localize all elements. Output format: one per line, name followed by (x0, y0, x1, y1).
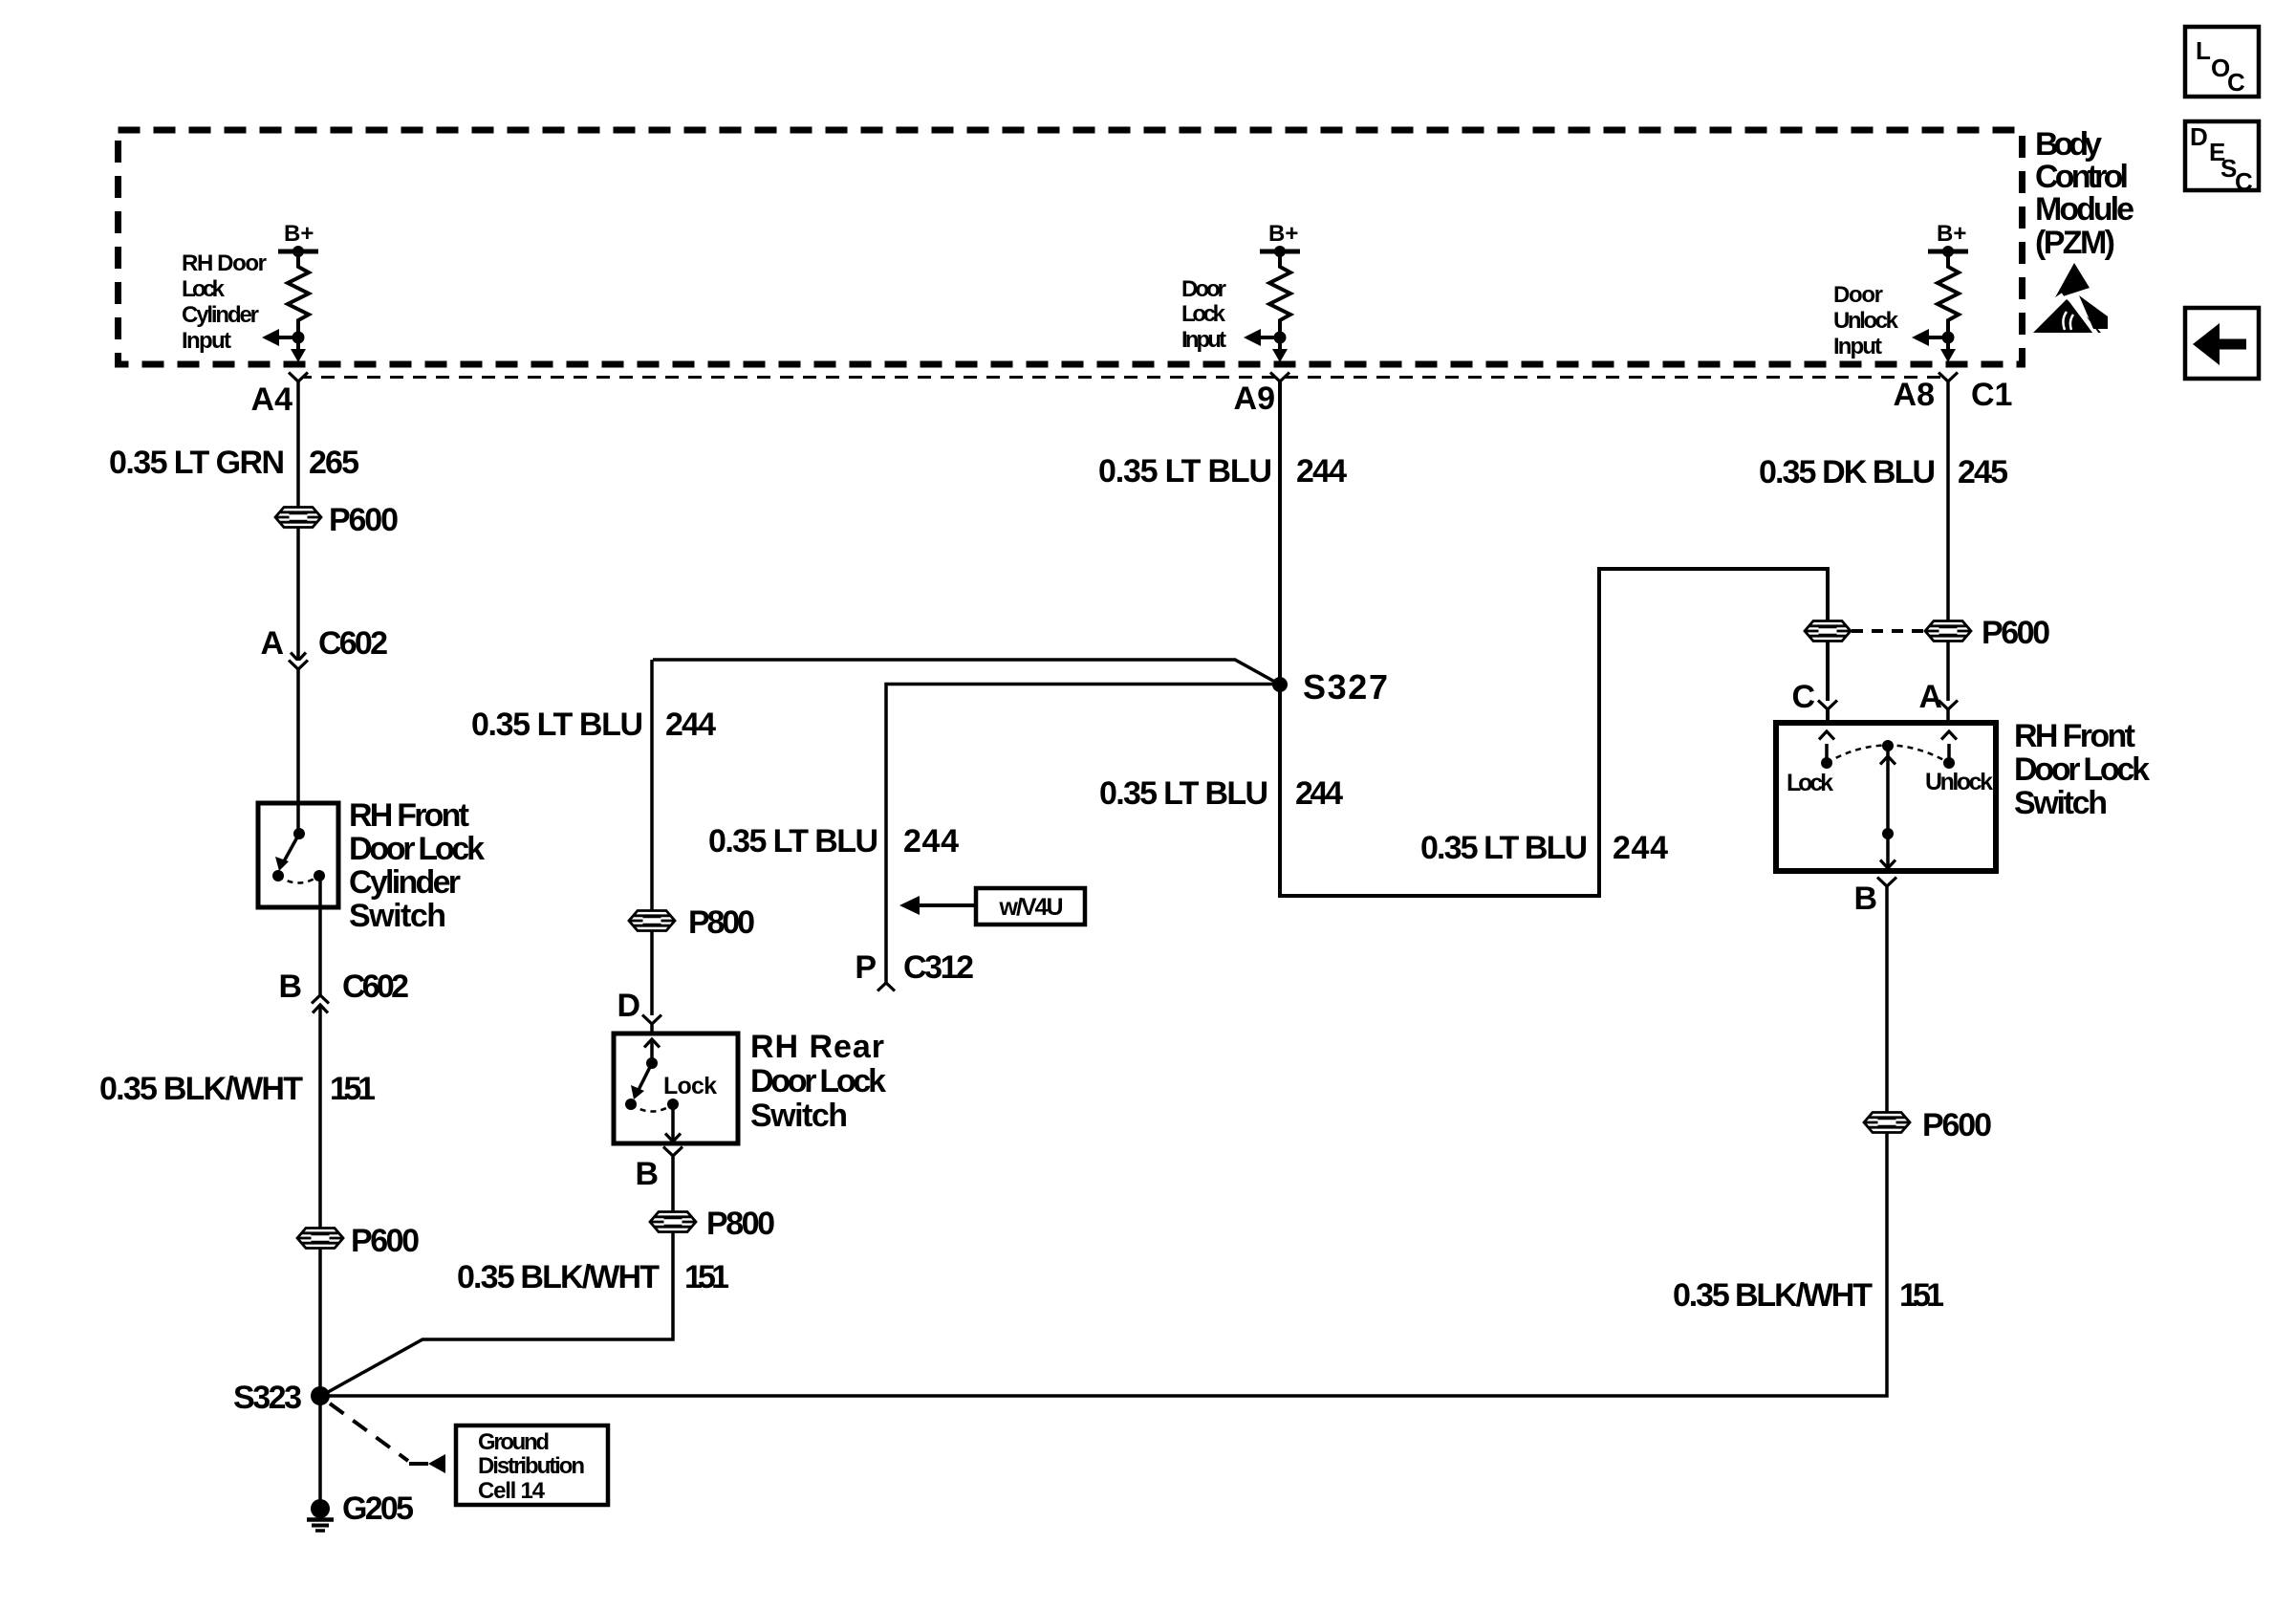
svg-text:151: 151 (684, 1259, 729, 1295)
svg-text:0.35 BLK/WHT: 0.35 BLK/WHT (99, 1071, 303, 1107)
svg-text:Input: Input (1181, 327, 1226, 353)
svg-text:RH Rear: RH Rear (750, 1029, 884, 1065)
svg-text:0.35 LT GRN: 0.35 LT GRN (109, 445, 285, 481)
svg-text:Door Lock: Door Lock (2014, 751, 2150, 788)
svg-text:C602: C602 (342, 968, 409, 1005)
svg-text:C312: C312 (903, 949, 974, 986)
svg-text:RH Door: RH Door (182, 250, 267, 276)
svg-text:L: L (2196, 36, 2211, 65)
svg-text:B+: B+ (284, 221, 314, 247)
svg-text:0.35 BLK/WHT: 0.35 BLK/WHT (1673, 1277, 1873, 1314)
svg-text:w/V4U: w/V4U (999, 894, 1064, 921)
svg-text:Lock: Lock (182, 276, 226, 302)
svg-text:B: B (635, 1156, 659, 1192)
svg-text:B: B (278, 968, 302, 1005)
svg-text:245: 245 (1958, 454, 2008, 490)
svg-text:P: P (855, 949, 877, 986)
svg-text:C: C (1791, 679, 1815, 715)
svg-text:151: 151 (1899, 1277, 1944, 1314)
svg-text:Ground: Ground (478, 1429, 550, 1455)
svg-text:Cylinder: Cylinder (349, 864, 461, 901)
svg-text:G205: G205 (342, 1490, 414, 1527)
svg-text:151: 151 (330, 1071, 376, 1107)
svg-text:0.35 BLK/WHT: 0.35 BLK/WHT (457, 1259, 660, 1295)
svg-text:0.35 LT BLU: 0.35 LT BLU (471, 707, 643, 743)
svg-text:Unlock: Unlock (1833, 308, 1899, 334)
svg-text:0.35 DK BLU: 0.35 DK BLU (1759, 454, 1936, 490)
svg-text:265: 265 (309, 445, 359, 481)
svg-text:P800: P800 (688, 904, 755, 941)
svg-text:Body: Body (2035, 126, 2102, 163)
svg-text:Cylinder: Cylinder (182, 302, 259, 328)
svg-text:P600: P600 (351, 1223, 420, 1259)
svg-text:244: 244 (665, 707, 716, 743)
svg-text:B+: B+ (1268, 221, 1298, 247)
svg-text:Door: Door (1181, 276, 1226, 302)
svg-text:Lock: Lock (663, 1073, 717, 1099)
svg-text:S323: S323 (233, 1380, 302, 1416)
svg-text:C1: C1 (1971, 377, 2012, 413)
svg-text:Input: Input (182, 328, 231, 354)
svg-text:A: A (260, 625, 284, 662)
svg-text:Control: Control (2035, 159, 2129, 195)
svg-text:P600: P600 (1982, 615, 2050, 651)
svg-text:A: A (1918, 679, 1942, 715)
svg-text:B: B (1853, 881, 1877, 917)
svg-text:C: C (2227, 68, 2245, 97)
svg-text:Switch: Switch (750, 1098, 848, 1134)
svg-text:P800: P800 (706, 1206, 775, 1242)
svg-text:244: 244 (1295, 775, 1343, 812)
svg-text:C: C (2235, 167, 2253, 196)
svg-text:Switch: Switch (349, 898, 446, 934)
svg-text:D: D (617, 988, 640, 1024)
svg-text:A8: A8 (1894, 377, 1935, 413)
svg-text:Input: Input (1833, 334, 1882, 359)
svg-text:Module: Module (2035, 191, 2134, 228)
svg-text:Lock: Lock (1787, 770, 1833, 796)
svg-text:C602: C602 (318, 625, 388, 662)
svg-text:B+: B+ (1937, 221, 1966, 247)
svg-text:(PZM): (PZM) (2035, 225, 2115, 261)
svg-text:P600: P600 (329, 502, 399, 538)
svg-text:Switch: Switch (2014, 785, 2108, 821)
svg-text:Door Lock: Door Lock (349, 831, 485, 867)
svg-text:Unlock: Unlock (1925, 769, 1993, 795)
svg-text:0.35 LT BLU: 0.35 LT BLU (1099, 775, 1268, 812)
svg-text:0.35 LT BLU: 0.35 LT BLU (1420, 830, 1588, 866)
svg-text:Cell 14: Cell 14 (478, 1478, 546, 1504)
svg-text:Lock: Lock (1181, 301, 1226, 327)
svg-text:S327: S327 (1303, 667, 1388, 707)
svg-text:P600: P600 (1922, 1107, 1992, 1143)
svg-text:0.35 LT BLU: 0.35 LT BLU (1098, 453, 1272, 490)
svg-text:D: D (2190, 122, 2208, 151)
svg-text:Distribution: Distribution (478, 1453, 585, 1479)
svg-text:0.35 LT BLU: 0.35 LT BLU (708, 823, 878, 859)
svg-text:Door: Door (1833, 282, 1883, 308)
svg-text:244: 244 (1613, 830, 1668, 866)
svg-text:Door Lock: Door Lock (750, 1063, 886, 1099)
svg-text:A4: A4 (251, 381, 293, 418)
svg-text:244: 244 (903, 823, 959, 859)
svg-text:RH Front: RH Front (349, 797, 469, 834)
svg-text:RH Front: RH Front (2014, 718, 2135, 754)
svg-text:A9: A9 (1234, 381, 1275, 417)
svg-text:244: 244 (1296, 453, 1347, 490)
